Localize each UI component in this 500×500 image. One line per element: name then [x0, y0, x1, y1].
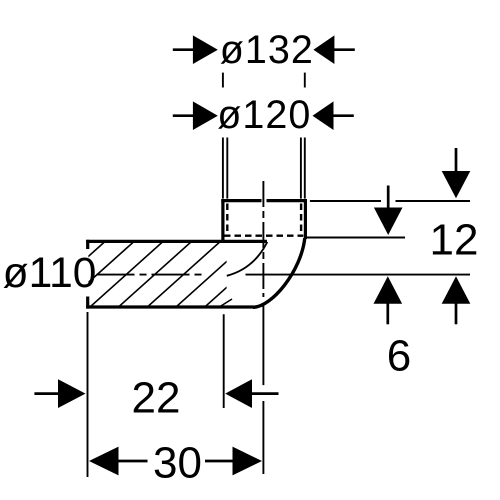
svg-text:12: 12 — [430, 216, 479, 265]
svg-text:30: 30 — [153, 439, 202, 488]
svg-text:ø120: ø120 — [217, 93, 311, 137]
svg-text:ø132: ø132 — [220, 28, 314, 72]
svg-text:6: 6 — [387, 331, 411, 380]
svg-text:22: 22 — [132, 374, 181, 423]
svg-text:ø110: ø110 — [3, 250, 97, 297]
